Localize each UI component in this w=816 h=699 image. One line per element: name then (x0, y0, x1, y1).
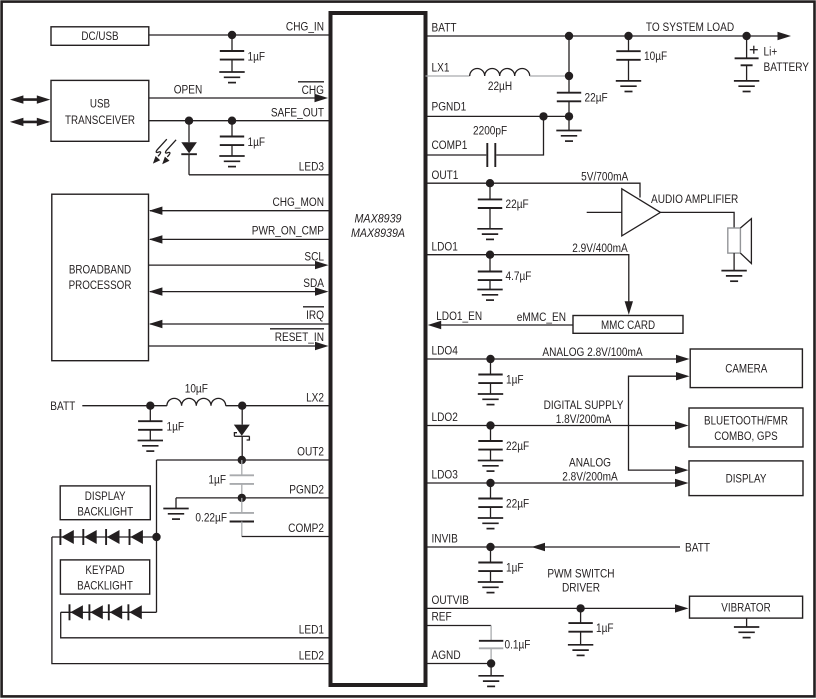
wire LDO2 net (426, 425, 677, 427)
block USB TRANSCEIVER (51, 80, 149, 141)
LED D9 (109, 604, 122, 620)
svg-text:VIBRATOR: VIBRATOR (721, 602, 770, 615)
wire LED3 net (189, 174, 330, 176)
inductor L2 (10uF label) (167, 383, 226, 406)
svg-text:1µF: 1µF (506, 373, 524, 386)
wire IRQ net (150, 323, 330, 325)
svg-text:CHG: CHG (302, 84, 324, 97)
wire OUTVIB net (426, 607, 677, 609)
LED D6 (130, 529, 143, 545)
arrow into IC (RESET_IN) (315, 342, 329, 350)
arrow into processor (PWR_ON_CMP) (149, 235, 163, 243)
svg-text:BATT: BATT (432, 22, 457, 35)
capacitor C3 1uF (LX2 input) (138, 406, 185, 451)
svg-text:1µF: 1µF (506, 561, 524, 574)
arrow into CAMERA (LDO4) (676, 355, 690, 363)
LED D8 (89, 604, 102, 620)
svg-text:LED1: LED1 (299, 624, 324, 637)
svg-text:1µF: 1µF (596, 622, 614, 635)
node OUT1 junction (486, 179, 494, 187)
wire PGND2 net (176, 497, 330, 499)
label DIGITAL SUPPLY 1.8V/200mA (544, 399, 624, 426)
svg-text:AUDIO AMPLIFIER: AUDIO AMPLIFIER (651, 193, 738, 206)
ground (PGND2) (163, 498, 188, 519)
svg-text:SDA: SDA (303, 277, 324, 290)
arrow into MMC CARD (625, 301, 633, 315)
svg-text:BACKLIGHT: BACKLIGHT (77, 506, 133, 519)
arrow toward IC (INVIB) (532, 543, 546, 551)
wire LX2 net (226, 405, 330, 407)
svg-text:INVIB: INVIB (432, 533, 458, 546)
capacitor C1 1uF (CHG_IN) (219, 35, 265, 83)
LED D7 (70, 604, 83, 620)
svg-text:CHG_MON: CHG_MON (272, 196, 324, 209)
svg-text:BATTERY: BATTERY (764, 61, 810, 74)
arrow into processor (CHG_MON) (149, 207, 163, 215)
block DISPLAY BACKLIGHT (60, 486, 150, 520)
wire LDO3 net (426, 482, 677, 484)
svg-text:LDO1: LDO1 (432, 241, 458, 254)
arrow into CHG pin (315, 94, 329, 102)
svg-text:22µF: 22µF (585, 92, 608, 105)
svg-text:22µF: 22µF (506, 440, 529, 453)
svg-text:OUTVIB: OUTVIB (432, 594, 470, 607)
wire SCL net (149, 264, 318, 266)
block VIBRATOR (690, 596, 803, 618)
arrow into IC (LDO1_EN) (428, 321, 442, 329)
wire LDO1_EN / eMMC_EN net (439, 324, 573, 326)
label ANALOG 2.8V/200mA (562, 457, 618, 484)
svg-text:10µF: 10µF (644, 50, 667, 63)
wire display backlight LED string (52, 536, 157, 538)
USB data double arrow 1 (10, 95, 50, 103)
capacitor C7 22uF (BATT/LX1) (557, 92, 608, 117)
wire OUT1 net (426, 183, 641, 197)
node BATT junction at 10uF (624, 32, 632, 40)
node INVIB junction (486, 543, 494, 551)
capacitor C9 22uF (OUT1) (477, 183, 528, 239)
LED D5 (106, 529, 119, 545)
ground (PGND1) (556, 116, 581, 141)
node LX1/BATT junction (565, 72, 573, 80)
svg-text:PWM SWITCH: PWM SWITCH (547, 568, 614, 581)
svg-text:1µF: 1µF (248, 50, 266, 63)
node SAFE_OUT junction at cap (228, 117, 236, 125)
wire OPEN/CHG net (149, 97, 316, 99)
svg-text:SCL: SCL (304, 250, 324, 263)
svg-text:BROADBAND: BROADBAND (69, 263, 131, 276)
svg-text:MAX8939A: MAX8939A (351, 227, 405, 240)
block BLUETOOTH/FMR COMBO, GPS (689, 408, 803, 447)
svg-text:CHG_IN: CHG_IN (286, 21, 324, 34)
node OUT2 junction (238, 456, 246, 464)
block KEYPAD BACKLIGHT (60, 560, 149, 594)
USB data double arrow 2 (10, 118, 50, 126)
node PGND2 junction (238, 494, 246, 502)
capacitor C2 1uF (SAFE_OUT) (219, 121, 265, 167)
svg-text:IRQ: IRQ (306, 309, 324, 322)
wire BATT net (to system load) (426, 35, 779, 37)
svg-text:KEYPAD: KEYPAD (85, 564, 124, 577)
diode D2 schottky (LX2 to OUT2) (234, 406, 250, 460)
svg-text:ANALOG 2.8V/100mA: ANALOG 2.8V/100mA (542, 346, 643, 359)
wire BATT to LX2 inductor (82, 405, 167, 407)
wire OUT2 net (157, 459, 331, 461)
svg-text:COMP2: COMP2 (288, 522, 324, 535)
op-amp audio amplifier triangle (587, 189, 739, 236)
svg-text:OUT1: OUT1 (432, 169, 459, 182)
svg-text:LDO2: LDO2 (432, 411, 458, 424)
arrow into BLUETOOTH (LDO2) (675, 421, 689, 429)
ground (VIBRATOR) (734, 618, 759, 638)
wire REF net (426, 625, 492, 627)
pin CHG label (overlined) (298, 82, 324, 97)
node BATT junction at LX1 cap (565, 32, 573, 40)
svg-text:BATT: BATT (50, 400, 75, 413)
LED D1 (LED3 indicator) (181, 121, 197, 175)
svg-text:OUT2: OUT2 (297, 446, 324, 459)
pin IRQ label (overlined) (303, 307, 324, 323)
node LDO4 junction (486, 355, 494, 363)
block BROADBAND PROCESSOR (52, 194, 149, 361)
svg-text:LED3: LED3 (299, 161, 324, 174)
svg-text:5V/700mA: 5V/700mA (581, 171, 628, 184)
svg-text:22µF: 22µF (506, 497, 529, 510)
arrow into IC (SDA) (315, 287, 329, 295)
svg-text:LDO4: LDO4 (432, 345, 458, 358)
node LDO1 junction (486, 251, 494, 259)
node LX2 junction at input cap (146, 402, 154, 410)
svg-text:1µF: 1µF (248, 136, 266, 149)
svg-text:LED2: LED2 (299, 649, 324, 662)
capacitor C4 1uF (OUT2) (208, 460, 254, 498)
wire BATT node down (568, 36, 570, 93)
svg-text:TRANSCEIVER: TRANSCEIVER (65, 114, 135, 127)
arrow into processor (SDA) (149, 287, 163, 295)
capacitor C10 4.7uF (LDO1) (477, 255, 531, 300)
svg-text:LDO3: LDO3 (432, 469, 458, 482)
svg-text:ANALOG: ANALOG (569, 457, 611, 470)
svg-text:2200pF: 2200pF (473, 125, 507, 138)
svg-text:22µH: 22µH (488, 80, 512, 93)
svg-text:AGND: AGND (432, 649, 461, 662)
wire amp output to speaker (660, 212, 734, 228)
node LDO3 junction (486, 479, 494, 487)
wire RESET_IN net (149, 345, 318, 347)
svg-text:RESET_IN: RESET_IN (275, 331, 324, 344)
block MMC CARD (573, 316, 683, 334)
block DISPLAY (689, 461, 803, 496)
wire LX1 to inductor (gray) (426, 75, 470, 77)
wire LDO4 net (426, 358, 678, 360)
svg-text:COMBO, GPS: COMBO, GPS (714, 430, 777, 443)
block DC/USB (51, 27, 149, 46)
svg-text:0.1µF: 0.1µF (505, 639, 531, 652)
svg-text:BLUETOOTH/FMR: BLUETOOTH/FMR (704, 415, 788, 428)
capacitor C13 22uF (LDO3) (478, 483, 529, 529)
svg-text:DIGITAL SUPPLY: DIGITAL SUPPLY (544, 399, 624, 412)
svg-text:LX1: LX1 (432, 62, 450, 75)
node LDO2 junction (486, 421, 494, 429)
speaker SP1 (721, 219, 751, 282)
svg-text:BACKLIGHT: BACKLIGHT (77, 580, 133, 593)
svg-text:0.22µF: 0.22µF (195, 511, 227, 524)
svg-text:DISPLAY: DISPLAY (726, 473, 767, 486)
svg-text:MAX8939: MAX8939 (355, 213, 402, 226)
block CAMERA (690, 349, 802, 388)
capacitor C6 10uF (BATT) (616, 36, 667, 92)
svg-text:1µF: 1µF (208, 474, 226, 487)
arrow into CAMERA (digital) (676, 372, 690, 380)
svg-text:DC/USB: DC/USB (81, 30, 118, 43)
node PGND1 junction at ground (565, 112, 573, 120)
svg-text:10µF: 10µF (185, 383, 208, 396)
svg-text:eMMC_EN: eMMC_EN (517, 311, 566, 324)
label PWM SWITCH DRIVER (547, 568, 614, 595)
svg-text:DRIVER: DRIVER (562, 582, 600, 595)
capacitor C8 2200pF (COMP1) (426, 116, 544, 167)
svg-text:TO SYSTEM LOAD: TO SYSTEM LOAD (646, 21, 734, 34)
svg-text:PGND2: PGND2 (289, 484, 324, 497)
svg-text:BATT: BATT (685, 542, 710, 555)
wire SDA net (150, 291, 317, 293)
wire LDO1 net (426, 255, 629, 303)
capacitor C15 1uF (OUTVIB) (568, 608, 614, 655)
wire keypad backlight LED string (61, 611, 157, 613)
node AGND junction (487, 659, 495, 667)
wire display string cathode to LED2 (52, 537, 330, 664)
svg-text:22µF: 22µF (506, 198, 529, 211)
battery B1 Li+ (734, 36, 810, 92)
arrow into DISPLAY (digital) (675, 466, 689, 474)
svg-text:SAFE_OUT: SAFE_OUT (271, 107, 324, 120)
wire PWR_ON_CMP net (150, 238, 330, 240)
svg-text:OPEN: OPEN (174, 84, 203, 97)
LED D10 (128, 604, 141, 620)
svg-text:Li+: Li+ (764, 46, 778, 59)
svg-text:LDO1_EN: LDO1_EN (436, 310, 482, 323)
ground (AGND) (478, 664, 503, 687)
node PGND1 junction at comp (539, 112, 547, 120)
svg-text:2.9V/400mA: 2.9V/400mA (572, 242, 628, 255)
svg-text:MMC CARD: MMC CARD (601, 319, 655, 332)
wire digital supply link to CAMERA and DISPLAY (629, 376, 678, 470)
node SAFE_OUT junction at LED (185, 117, 193, 125)
arrow into IC (SCL) (315, 261, 329, 269)
IC U1 MAX8939/MAX8939A (331, 13, 426, 685)
svg-text:USB: USB (90, 98, 110, 111)
LED D4 (83, 529, 96, 545)
wire inductor to BATT node (gray) (530, 75, 569, 77)
inductor L1 22uH (470, 69, 530, 94)
LED D3 (60, 529, 73, 545)
wire OUT2 feed down to LED strings (156, 460, 158, 612)
svg-text:1µF: 1µF (167, 421, 185, 434)
node backlight junction (152, 533, 160, 541)
capacitor C16 0.1uF (REF) (479, 626, 531, 664)
svg-text:PWR_ON_CMP: PWR_ON_CMP (252, 225, 324, 238)
arrow into processor (IRQ) (149, 320, 163, 328)
wire PGND1 net (426, 115, 570, 117)
svg-text:4.7µF: 4.7µF (506, 270, 532, 283)
wire COMP2 net (242, 536, 330, 538)
capacitor C12 22uF (LDO2) (478, 426, 529, 472)
wire SAFE_OUT net (149, 120, 330, 122)
wire INVIB net from BATT (426, 546, 681, 548)
node OUTVIB junction (576, 604, 584, 612)
pin RESET_IN label (overlined) (270, 329, 324, 345)
wire AGND net (426, 663, 492, 665)
svg-text:PROCESSOR: PROCESSOR (69, 279, 132, 292)
node LX2 junction at diode (238, 402, 246, 410)
capacitor C11 1uF (LDO4) (478, 359, 524, 405)
node CHG_IN junction (228, 31, 236, 39)
arrow into VIBRATOR (675, 604, 689, 612)
wire CHG_IN net (149, 34, 330, 36)
wire keypad string cathode to LED1 (61, 612, 330, 638)
svg-text:DISPLAY: DISPLAY (85, 490, 126, 503)
svg-text:COMP1: COMP1 (432, 139, 468, 152)
svg-text:2.8V/200mA: 2.8V/200mA (562, 471, 618, 484)
svg-text:1.8V/200mA: 1.8V/200mA (556, 413, 612, 426)
svg-text:LX2: LX2 (306, 392, 324, 405)
svg-text:CAMERA: CAMERA (725, 363, 768, 376)
wire CHG_MON net (150, 210, 330, 212)
capacitor C14 1uF (INVIB) (478, 547, 524, 593)
capacitor C5 0.22uF (COMP2) (195, 498, 254, 537)
svg-text:REF: REF (432, 611, 452, 624)
LED light emission arrows (153, 139, 176, 164)
node BATT junction at battery (742, 32, 750, 40)
arrow into DISPLAY (LDO3) (675, 479, 689, 487)
svg-text:PGND1: PGND1 (432, 101, 467, 114)
arrow TO SYSTEM LOAD (778, 32, 792, 40)
